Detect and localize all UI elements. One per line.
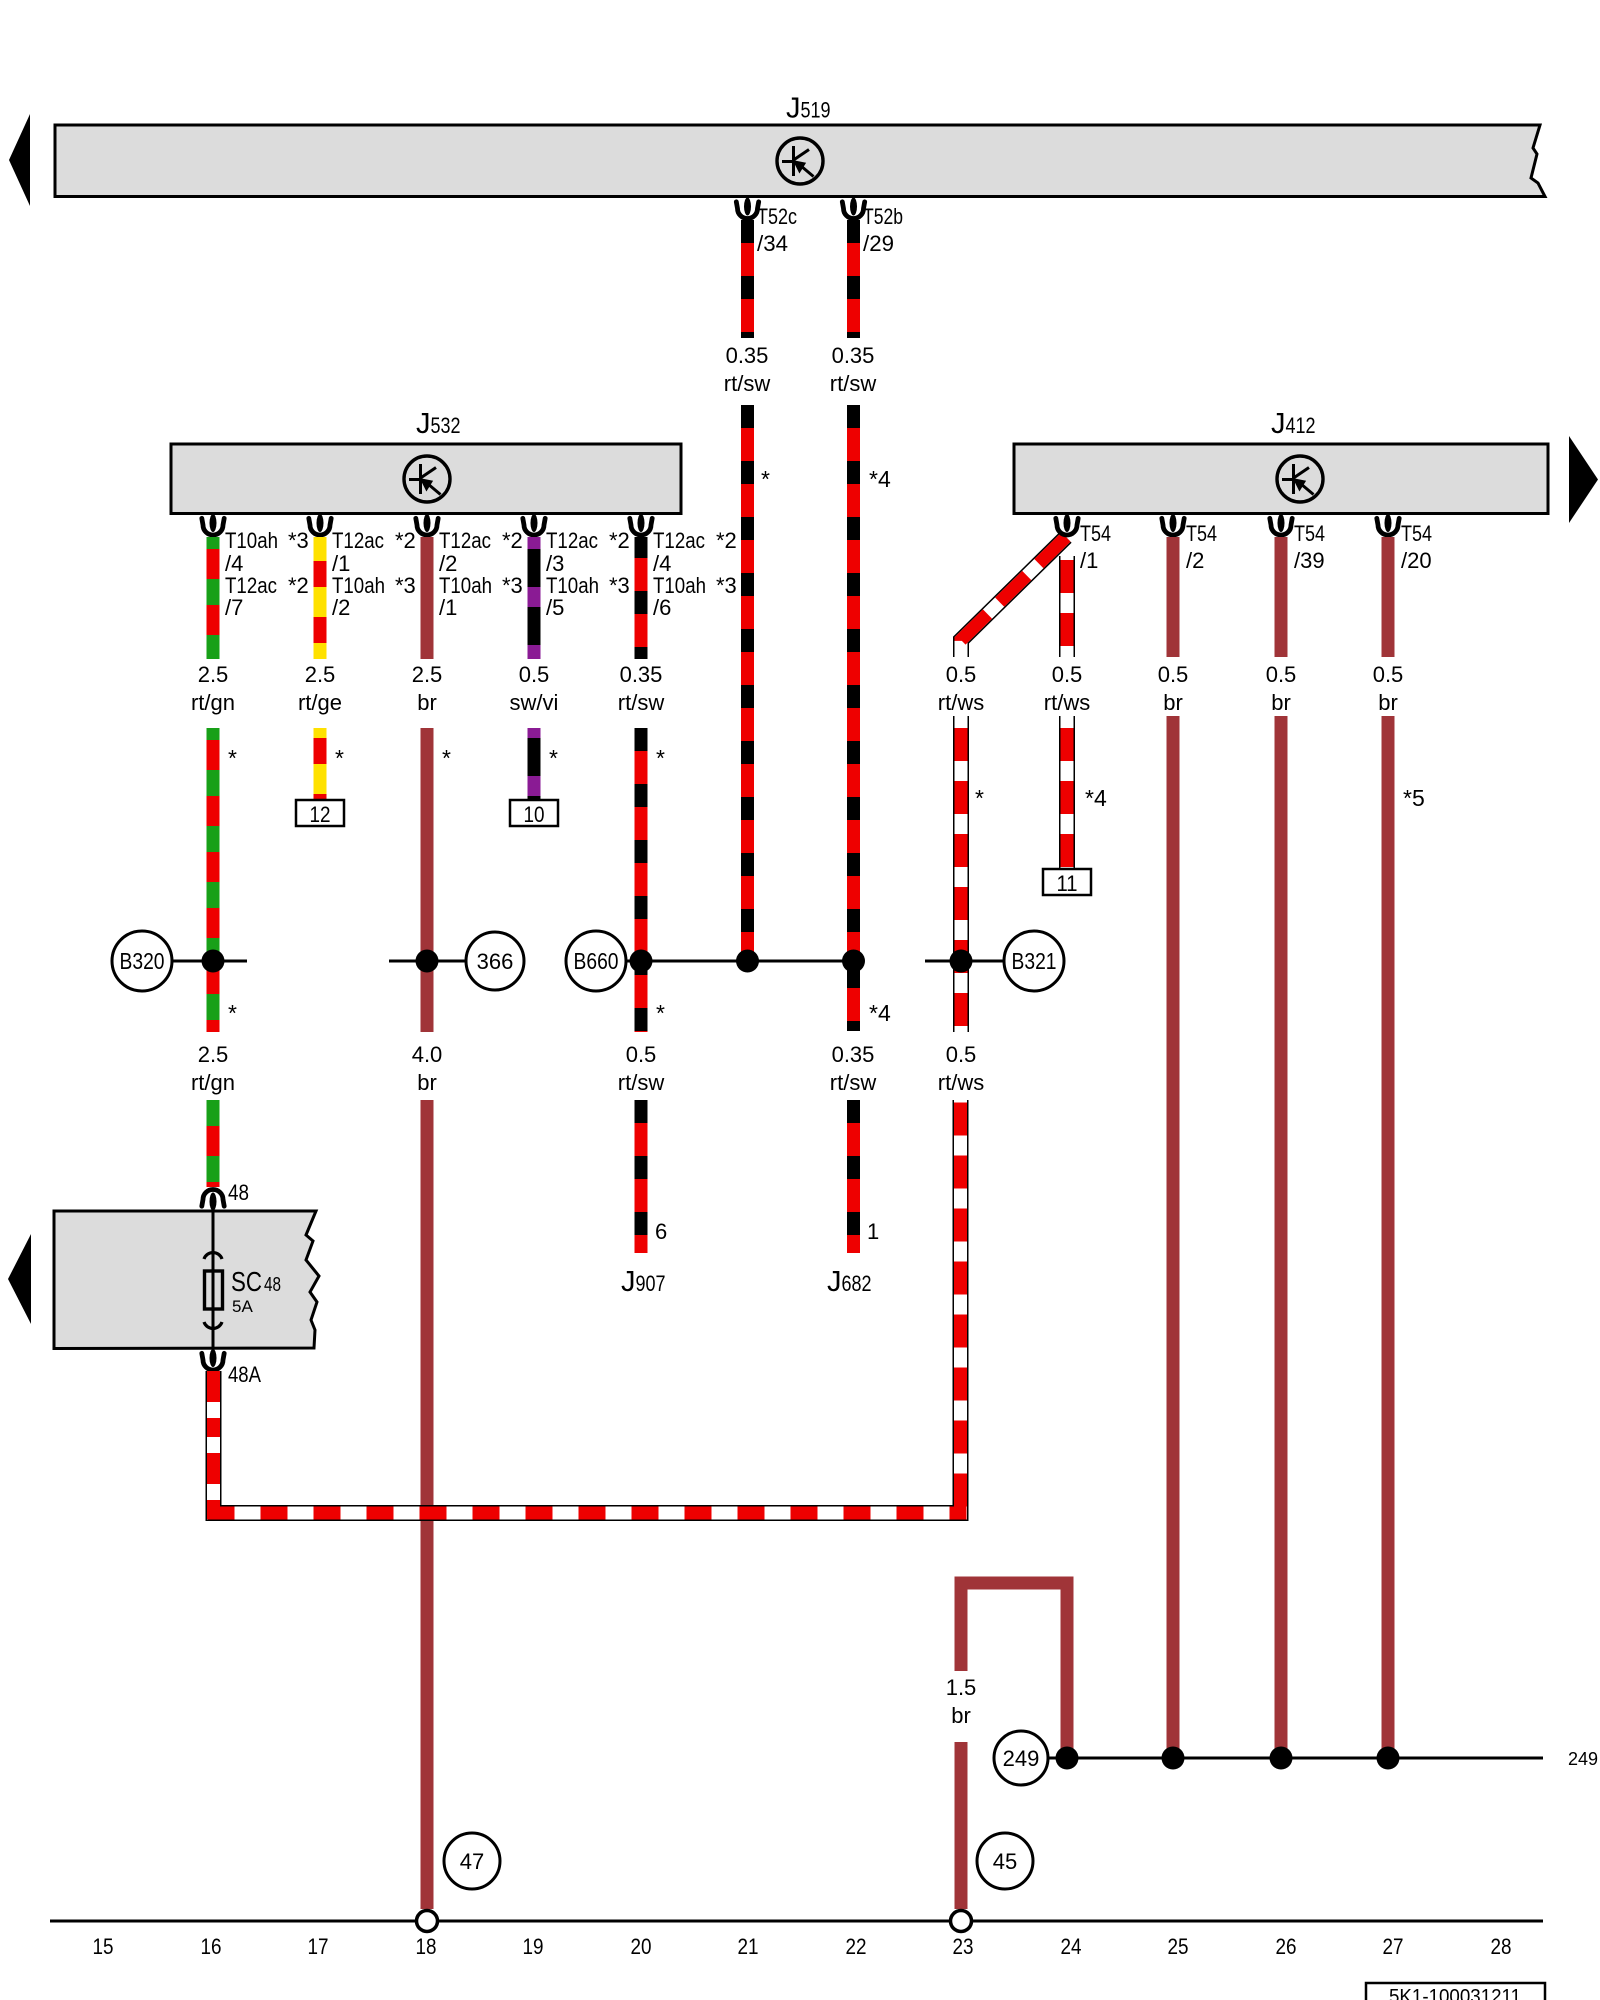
J412 function symbol <box>1277 456 1323 502</box>
label 0.5 rt/ws (col 23 lower) <box>938 1042 984 1095</box>
svg-text:rt/sw: rt/sw <box>830 371 877 396</box>
part number box <box>1366 1983 1545 2000</box>
junction dot col18 <box>416 950 439 973</box>
svg-text:*2: *2 <box>395 528 416 553</box>
connector pin 48A on fuse box <box>202 1349 261 1387</box>
label 1.5 br <box>946 1675 977 1728</box>
wire 0.5 br down to junction 249 (col 25) <box>1167 716 1180 1758</box>
svg-text:rt/sw: rt/sw <box>830 1070 877 1095</box>
J532 function symbol <box>404 456 450 502</box>
fuse box SC48 <box>54 1211 319 1349</box>
svg-text:16: 16 <box>201 1934 222 1959</box>
svg-text:28: 28 <box>1491 1934 1512 1959</box>
label 2.5 rt/gn <box>191 662 235 715</box>
svg-text:/5: /5 <box>546 595 564 620</box>
svg-text:rt/sw: rt/sw <box>618 1070 665 1095</box>
connection box 10 <box>510 800 558 827</box>
svg-text:*: * <box>656 745 665 771</box>
label 0.5 br (col 26) <box>1266 662 1297 715</box>
wire 0.5 rt/ws col23 down through junction B321 <box>953 716 969 1032</box>
svg-text:21: 21 <box>738 1934 759 1959</box>
svg-text:T52c: T52c <box>757 204 797 229</box>
node circle 366 <box>466 932 524 990</box>
svg-text:0.35: 0.35 <box>832 343 875 368</box>
label 0.35 rt/sw (T52b) <box>830 343 877 396</box>
svg-text:*4: *4 <box>869 466 891 492</box>
junction line B660 to col22 <box>626 960 854 963</box>
svg-text:T12ac: T12ac <box>653 528 705 553</box>
svg-text:br: br <box>1163 690 1183 715</box>
node circle B321 <box>1004 931 1064 991</box>
svg-text:T54: T54 <box>1401 521 1432 546</box>
label 4.0 br (lower) <box>412 1042 443 1095</box>
svg-text:*: * <box>228 745 237 771</box>
svg-text:20: 20 <box>631 1934 652 1959</box>
svg-text:J532: J532 <box>416 408 461 440</box>
svg-text:T12ac: T12ac <box>332 528 384 553</box>
svg-text:B320: B320 <box>120 948 165 974</box>
svg-text:rt/gn: rt/gn <box>191 690 235 715</box>
svg-text:*3: *3 <box>609 573 630 598</box>
wire 4.0 br down to ground 47 <box>421 1100 434 1909</box>
svg-text:/29: /29 <box>863 231 894 256</box>
svg-text:*4: *4 <box>869 1000 891 1026</box>
label 0.5 sw/vi <box>510 662 559 715</box>
wire 0.5 br stub (T54/2) <box>1167 537 1180 657</box>
svg-text:1: 1 <box>867 1219 879 1244</box>
svg-text:12: 12 <box>310 802 331 827</box>
wire 0.5 rt/sw to J907 <box>635 1100 648 1253</box>
wire 0.35 rt/sw from T52c down to junction <box>741 405 754 961</box>
wire 1.5 br bridge from col23 over to col24 <box>961 1583 1067 1758</box>
connection box 11 <box>1043 869 1091 896</box>
svg-text:2.5: 2.5 <box>198 662 229 687</box>
junction line at B321 <box>925 960 1004 963</box>
svg-text:/7: /7 <box>225 595 243 620</box>
connector T12ac/4, T10ah/6 (J532 pin 5) <box>630 514 737 620</box>
label 0.5 br (col 27) <box>1373 662 1404 715</box>
svg-text:*4: *4 <box>1085 785 1107 811</box>
svg-text:0.5: 0.5 <box>1052 662 1083 687</box>
connector T12ac/3, T10ah/5 (J532 pin 4) <box>523 514 630 620</box>
svg-text:br: br <box>1271 690 1291 715</box>
wire 2.5 rt/ge stub to connection 12 <box>314 728 327 800</box>
wire 0.5 rt/ws from 48A down, across, and up column 23 <box>208 1100 967 1520</box>
control unit J519 box <box>55 125 1545 197</box>
wire 0.5 rt/ws stub to connection 11 <box>1059 716 1075 869</box>
wire 0.5 sw/vi stub from J532 <box>528 537 541 659</box>
svg-text:0.5: 0.5 <box>946 662 977 687</box>
J519 function symbol <box>777 138 823 184</box>
svg-text:2.5: 2.5 <box>305 662 336 687</box>
svg-text:*2: *2 <box>288 573 309 598</box>
node circle 47 <box>444 1833 500 1889</box>
control unit J412 box <box>1014 444 1548 514</box>
svg-text:T54: T54 <box>1294 521 1325 546</box>
svg-text:4.0: 4.0 <box>412 1042 443 1067</box>
label 0.5 br (col 25) <box>1158 662 1189 715</box>
wire 0.5 br stub (T54/39) <box>1275 537 1288 657</box>
node circle 45 <box>977 1833 1033 1889</box>
node circle 249 <box>994 1731 1048 1785</box>
junction line at 366 <box>389 960 466 963</box>
svg-text:/39: /39 <box>1294 548 1325 573</box>
wire 0.5 rt/ws diagonal from T54/1 to column 23 <box>961 537 1066 657</box>
svg-text:rt/ws: rt/ws <box>1044 690 1090 715</box>
svg-text:/1: /1 <box>439 595 457 620</box>
svg-text:*2: *2 <box>716 528 737 553</box>
svg-text:rt/ws: rt/ws <box>938 690 984 715</box>
svg-text:*5: *5 <box>1403 785 1425 811</box>
svg-text:0.5: 0.5 <box>519 662 550 687</box>
svg-text:/1: /1 <box>1080 548 1098 573</box>
svg-text:19: 19 <box>523 1934 544 1959</box>
wire 2.5 br stub from J532 <box>421 537 434 659</box>
svg-text:0.5: 0.5 <box>946 1042 977 1067</box>
svg-text:249: 249 <box>1568 1749 1598 1769</box>
svg-text:*: * <box>656 1000 665 1026</box>
svg-text:J907: J907 <box>621 1266 666 1298</box>
svg-text:47: 47 <box>460 1849 484 1874</box>
svg-text:SC: SC <box>231 1266 262 1297</box>
svg-text:T54: T54 <box>1186 521 1217 546</box>
label 0.5 rt/sw (above J907) <box>618 1042 665 1095</box>
svg-text:/20: /20 <box>1401 548 1432 573</box>
svg-text:27: 27 <box>1383 1934 1404 1959</box>
ground point 45 (col 23) <box>951 1911 972 1932</box>
svg-text:rt/sw: rt/sw <box>724 371 771 396</box>
wire 1.5 br down to ground 45 <box>955 1742 968 1909</box>
wire 0.35 rt/sw stub from J532 <box>635 537 648 659</box>
svg-text:6: 6 <box>655 1219 667 1244</box>
junction line at B320 <box>172 960 247 963</box>
wire 0.35 rt/sw down through junction B660 <box>635 728 648 1032</box>
wire 2.5 rt/gn to fuse SC48 <box>207 1100 220 1187</box>
wire 2.5 rt/gn down to junction B320 <box>207 728 220 1032</box>
svg-text:0.35: 0.35 <box>620 662 663 687</box>
junction dot col23 <box>950 950 973 973</box>
connector T54/2 (J412 pin 2) <box>1162 514 1217 573</box>
svg-text:/2: /2 <box>332 595 350 620</box>
bottom rail <box>50 1920 1543 1923</box>
svg-text:25: 25 <box>1168 1934 1189 1959</box>
junction dots col20, col21, col22 <box>630 950 866 973</box>
connector T54/20 (J412 pin 4) <box>1377 514 1432 573</box>
connector T12ac/2, T10ah/1 (J532 pin 3) <box>416 514 523 620</box>
svg-text:T12ac: T12ac <box>546 528 598 553</box>
svg-text:0.35: 0.35 <box>832 1042 875 1067</box>
label 0.35 rt/sw (T52c) <box>724 343 771 396</box>
svg-text:br: br <box>951 1703 971 1728</box>
wire 0.5 sw/vi stub to connection 10 <box>528 728 541 800</box>
connector T54/39 (J412 pin 3) <box>1270 514 1325 573</box>
svg-text:*3: *3 <box>716 573 737 598</box>
svg-text:br: br <box>1378 690 1398 715</box>
svg-text:J412: J412 <box>1271 408 1316 440</box>
svg-text:*: * <box>335 745 344 771</box>
svg-text:26: 26 <box>1276 1934 1297 1959</box>
junction dot col16 <box>202 950 225 973</box>
svg-text:sw/vi: sw/vi <box>510 690 559 715</box>
wire 2.5 rt/ge stub from J532 <box>314 537 327 659</box>
svg-text:1.5: 1.5 <box>946 1675 977 1700</box>
svg-text:T52b: T52b <box>863 204 903 229</box>
svg-text:rt/ge: rt/ge <box>298 690 342 715</box>
svg-text:5A: 5A <box>232 1297 253 1316</box>
wire 0.5 br down to junction 249 (col 26) <box>1275 716 1288 1758</box>
svg-text:24: 24 <box>1061 1934 1082 1959</box>
label 0.5 rt/ws (col 23) <box>938 662 984 715</box>
ground point 47 (col 18) <box>417 1911 438 1932</box>
svg-text:T54: T54 <box>1080 521 1111 546</box>
svg-text:0.5: 0.5 <box>1373 662 1404 687</box>
svg-text:br: br <box>417 1070 437 1095</box>
svg-text:48A: 48A <box>228 1362 261 1387</box>
connection box 12 <box>296 800 344 827</box>
svg-text:*: * <box>761 466 770 492</box>
connector pin 48 on fuse box <box>202 1180 249 1211</box>
node circle B320 <box>112 931 172 991</box>
svg-text:5K1-100031211: 5K1-100031211 <box>1389 1986 1521 2000</box>
svg-text:11: 11 <box>1057 871 1078 896</box>
svg-text:17: 17 <box>308 1934 329 1959</box>
connector T52c/34 <box>736 198 797 257</box>
node circle B660 <box>566 931 626 991</box>
left continuation arrow <box>9 114 30 206</box>
svg-text:15: 15 <box>93 1934 114 1959</box>
svg-text:2.5: 2.5 <box>198 1042 229 1067</box>
connector T54/1 (J412 pin 1) <box>1056 514 1111 573</box>
svg-text:45: 45 <box>993 1849 1017 1874</box>
right continuation arrow <box>1569 436 1598 523</box>
wire 0.35 rt/sw to J682 <box>847 1100 860 1253</box>
wire 0.35 rt/sw from T52b/29 (upper stub) <box>847 220 860 338</box>
svg-text:J682: J682 <box>827 1266 872 1298</box>
label 2.5 br <box>412 662 443 715</box>
svg-text:366: 366 <box>477 949 514 974</box>
svg-text:*: * <box>549 745 558 771</box>
svg-text:23: 23 <box>953 1934 974 1959</box>
svg-text:0.5: 0.5 <box>626 1042 657 1067</box>
svg-text:rt/sw: rt/sw <box>618 690 665 715</box>
svg-text:18: 18 <box>416 1934 437 1959</box>
grid numbers <box>93 1934 1512 1959</box>
svg-text:*3: *3 <box>288 528 309 553</box>
svg-text:rt/ws: rt/ws <box>938 1070 984 1095</box>
svg-text:*3: *3 <box>395 573 416 598</box>
connector T52b/29 <box>842 198 903 257</box>
label 2.5 rt/ge <box>298 662 342 715</box>
wire 0.35 rt/sw from T52b down through junction <box>847 405 860 1031</box>
svg-text:/2: /2 <box>1186 548 1204 573</box>
label 2.5 rt/gn (lower) <box>191 1042 235 1095</box>
svg-text:/34: /34 <box>757 231 788 256</box>
svg-text:*2: *2 <box>502 528 523 553</box>
wire 2.5 rt/gn stub from J532 <box>207 537 220 659</box>
label 0.35 rt/sw (above J682) <box>830 1042 877 1095</box>
svg-text:10: 10 <box>524 802 545 827</box>
label 0.35 rt/sw (col 20) <box>618 662 665 715</box>
svg-text:*: * <box>228 1000 237 1026</box>
svg-text:T10ah: T10ah <box>225 528 278 553</box>
svg-text:48: 48 <box>228 1180 249 1205</box>
left continuation arrow (SC48) <box>8 1234 31 1324</box>
svg-text:22: 22 <box>846 1934 867 1959</box>
svg-text:T12ac: T12ac <box>439 528 491 553</box>
wire 0.5 rt/ws stub T54/1 down to connection 11 <box>1059 556 1075 657</box>
wire 4.0 br down through junction 366 <box>421 728 434 1032</box>
svg-text:*: * <box>975 785 984 811</box>
svg-text:br: br <box>417 690 437 715</box>
svg-text:0.5: 0.5 <box>1158 662 1189 687</box>
junction line 249 <box>1048 1757 1543 1760</box>
svg-text:*2: *2 <box>609 528 630 553</box>
svg-text:rt/gn: rt/gn <box>191 1070 235 1095</box>
connector T12ac/1, T10ah/2 (J532 pin 2) <box>309 514 416 620</box>
control unit J532 box <box>171 444 681 514</box>
wire 0.35 rt/sw from T52c/34 (upper stub) <box>741 220 754 338</box>
svg-text:J519: J519 <box>786 93 831 125</box>
svg-text:0.5: 0.5 <box>1266 662 1297 687</box>
wire 0.5 br stub (T54/20) <box>1382 537 1395 657</box>
svg-text:*: * <box>442 745 451 771</box>
svg-text:48: 48 <box>264 1274 281 1296</box>
svg-text:*3: *3 <box>502 573 523 598</box>
svg-text:B321: B321 <box>1012 948 1057 974</box>
junction dots on 249 line <box>1056 1747 1400 1770</box>
svg-text:B660: B660 <box>574 948 619 974</box>
fuse SC48 5A <box>204 1211 281 1351</box>
svg-text:/6: /6 <box>653 595 671 620</box>
svg-text:249: 249 <box>1003 1746 1040 1771</box>
label 0.5 rt/ws (col 24) <box>1044 662 1090 715</box>
svg-text:0.35: 0.35 <box>726 343 769 368</box>
wire 0.5 br down to junction 249 (col 27) <box>1382 716 1395 1758</box>
svg-text:2.5: 2.5 <box>412 662 443 687</box>
connector T10ah/4, T12ac/7 (J532 pin 1) <box>202 514 309 620</box>
